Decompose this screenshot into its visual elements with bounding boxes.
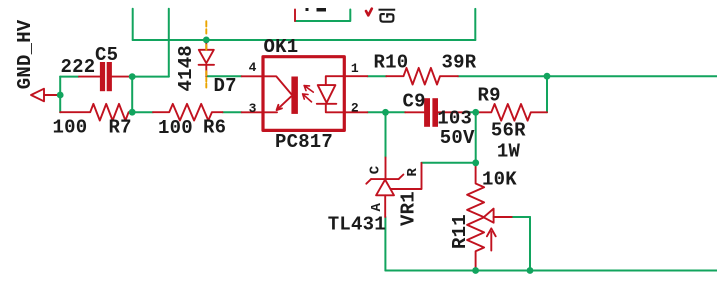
wire: [466, 111, 476, 113]
svg-text:GND_HV: GND_HV: [14, 19, 36, 89]
junction R11 bottom: [472, 267, 479, 274]
black marks in partial box: [306, 8, 309, 11]
wire: [367, 111, 405, 113]
wire: [385, 112, 387, 157]
wire: [474, 9, 476, 40]
svg-text:R11: R11: [449, 214, 471, 249]
ground GND_HV power symbol: [31, 89, 60, 102]
svg-text:OK1: OK1: [264, 36, 299, 58]
junction R7/R6: [129, 109, 136, 116]
D7 orange dashes: [205, 21, 207, 87]
svg-text:4148: 4148: [175, 45, 197, 91]
wire: [131, 77, 133, 113]
resistor R9: [476, 104, 547, 121]
svg-text:100: 100: [158, 117, 193, 139]
net label G (cut off): [379, 9, 396, 22]
junction R10 output: [544, 73, 551, 80]
wire: [546, 76, 548, 112]
wire: [59, 77, 61, 113]
light arrows: [303, 86, 314, 102]
wire: [458, 75, 717, 77]
wire: [475, 112, 477, 163]
svg-text:R: R: [405, 168, 421, 177]
wire: [529, 217, 531, 271]
svg-text:PC817: PC817: [275, 131, 333, 153]
svg-text:39R: 39R: [442, 51, 477, 73]
junction R11 wiper return: [527, 267, 534, 274]
wire: [367, 75, 386, 77]
junction C9/R9: [472, 109, 479, 116]
wire: [133, 39, 476, 41]
svg-text:10K: 10K: [482, 169, 517, 191]
sheet box partial: [295, 10, 350, 22]
capacitor C9: [405, 111, 465, 113]
wire: [384, 217, 386, 271]
wire: [132, 9, 134, 40]
svg-text:1: 1: [351, 61, 359, 76]
svg-text:103: 103: [437, 107, 472, 129]
svg-text:A: A: [369, 203, 385, 212]
svg-text:C9: C9: [403, 90, 426, 112]
wire: [385, 270, 717, 272]
OK1 pin leads: [242, 76, 368, 112]
svg-text:VR1: VR1: [398, 191, 420, 226]
diode D7: [199, 40, 214, 76]
svg-text:56R: 56R: [491, 120, 526, 142]
wire: [223, 111, 242, 113]
svg-text:C5: C5: [95, 44, 118, 66]
optocoupler OK1 body: [263, 57, 344, 131]
wire: [168, 9, 170, 77]
resistor R6: [153, 104, 223, 121]
svg-text:TL431: TL431: [328, 214, 386, 236]
svg-text:3: 3: [249, 101, 257, 116]
svg-text:D7: D7: [214, 75, 237, 97]
phototransistor inside OK1: [264, 76, 292, 112]
wire: [60, 76, 79, 78]
svg-text:2: 2: [351, 100, 359, 115]
sheet box partial left edge: [294, 10, 296, 22]
wire: [512, 216, 530, 218]
svg-text:222: 222: [61, 56, 96, 78]
junction at ground node: [57, 92, 64, 99]
svg-text:4: 4: [249, 60, 257, 75]
LED inside OK1: [317, 76, 344, 112]
potentiometer R11: [467, 163, 512, 271]
svg-text:C: C: [368, 165, 384, 174]
junction VR1 ref / R11 top: [472, 159, 479, 166]
wire: [132, 111, 153, 113]
junction C5/R7 top: [129, 73, 136, 80]
wire: [132, 76, 169, 78]
svg-text:1W: 1W: [497, 141, 521, 163]
resistor R7: [60, 104, 132, 121]
TL431 VR1: [366, 158, 421, 218]
wire: [422, 162, 476, 164]
resistor R10: [386, 68, 458, 85]
checkmark top: [366, 9, 372, 16]
wire: [206, 75, 241, 77]
svg-text:R10: R10: [374, 51, 409, 73]
capacitor C5: [79, 76, 132, 78]
svg-text:R7: R7: [109, 116, 132, 138]
svg-text:R9: R9: [478, 85, 501, 107]
svg-text:50V: 50V: [440, 127, 475, 149]
svg-text:R6: R6: [203, 117, 226, 139]
svg-text:100: 100: [53, 116, 88, 138]
junction OK1 pin2 / TL431 cathode: [382, 109, 389, 116]
junction D7 anode: [203, 37, 210, 44]
